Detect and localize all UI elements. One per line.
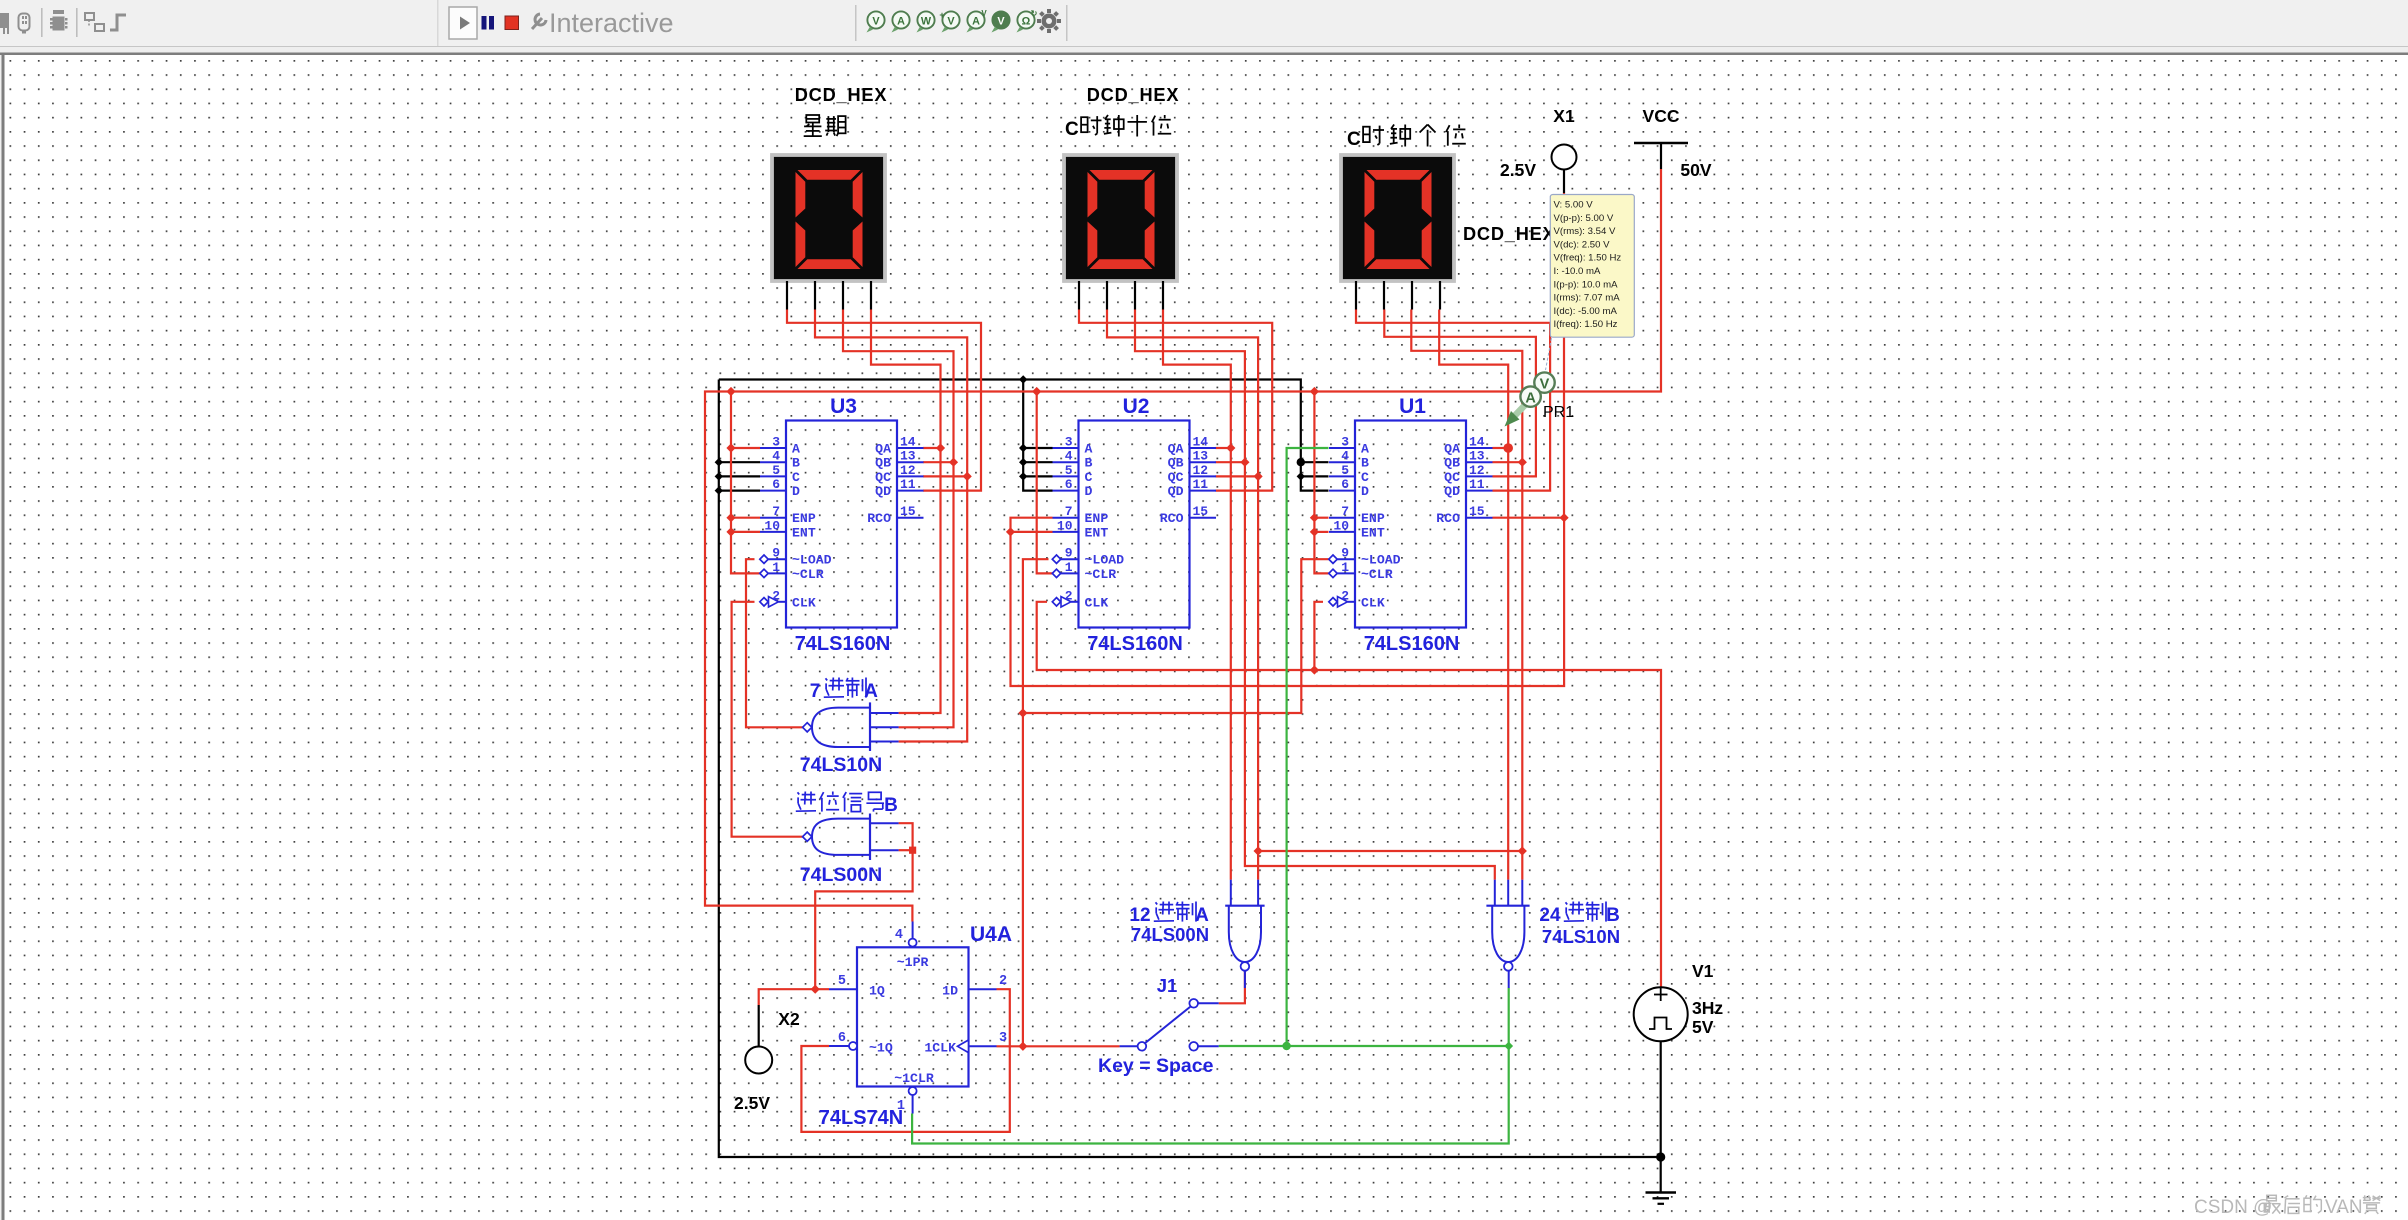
toolbar separator: [855, 5, 857, 41]
canvas left border: [2, 55, 5, 1220]
junction GND V1: [1656, 1152, 1665, 1161]
svg-text:CLK: CLK: [1085, 595, 1109, 610]
svg-text:~1Q: ~1Q: [869, 1041, 893, 1056]
svg-text:D: D: [792, 484, 800, 499]
wire U3 QB net (display1 pin3, 7进制A in2): [843, 310, 954, 728]
svg-text:U2: U2: [1123, 395, 1150, 418]
toolbar probe icons: [867, 9, 1038, 33]
svg-text:CLK: CLK: [792, 595, 816, 610]
svg-text:C: C: [792, 470, 800, 485]
label 24进制B: [1539, 902, 1619, 927]
wire U2 QC to 24进制B in3 link: [1260, 850, 1523, 852]
NAND gate 进位信号B 74LS00N: [803, 814, 899, 861]
wire U1 QD to display3 pin1: [1356, 310, 1550, 491]
X2 probe stub: [758, 1005, 760, 1046]
svg-text:Interactive: Interactive: [549, 8, 674, 38]
wire clock rail V1 to U2 CLK: [1037, 602, 1661, 988]
svg-text:12: 12: [1469, 463, 1485, 478]
svg-text:V(p-p): 5.00 V: V(p-p): 5.00 V: [1554, 213, 1614, 224]
svg-text:X2: X2: [778, 1009, 800, 1029]
junction U1 QA (probe point): [1503, 443, 1513, 453]
svg-text:6: 6: [772, 477, 780, 492]
svg-text:12: 12: [1129, 905, 1150, 926]
counter U1 74LS160N: [1329, 395, 1493, 655]
svg-text:14: 14: [1469, 435, 1485, 450]
wire U2 VCC branch to ~CLR: [1037, 392, 1053, 574]
toolbar right separator: [1066, 5, 1068, 41]
wire U3 CLK from NAND 进位信号B output: [732, 602, 803, 837]
svg-text:2: 2: [1341, 588, 1349, 603]
wire GND U2 branch: [1023, 380, 1052, 491]
svg-text:B: B: [1085, 456, 1093, 471]
junction U1 ENT: [1310, 527, 1319, 536]
7-segment display U7 (C时钟个位): [1341, 155, 1454, 281]
label Key = Space: [1098, 1055, 1214, 1077]
svg-text:12: 12: [1193, 463, 1209, 478]
svg-text:C: C: [1347, 129, 1361, 150]
svg-text:A: A: [1361, 442, 1369, 457]
svg-text:B: B: [1606, 905, 1620, 926]
label DCD_HEX display1: [795, 85, 888, 105]
svg-text:VAN: VAN: [2325, 1197, 2363, 1218]
label DCD_HEX display2: [1087, 85, 1180, 105]
svg-text:DCD_HEX: DCD_HEX: [1463, 224, 1556, 244]
svg-text:V: V: [1540, 377, 1550, 393]
label 50V: [1680, 160, 1711, 180]
label V1: [1692, 961, 1714, 981]
wire U3 QD to display1 pin1: [787, 310, 981, 491]
junction U2 QC link: [1254, 846, 1263, 855]
svg-text:ENT: ENT: [792, 525, 816, 540]
svg-text:6: 6: [838, 1031, 846, 1046]
junction U3 QB: [949, 458, 958, 467]
svg-text:15: 15: [1193, 504, 1209, 519]
svg-text:RCO: RCO: [867, 511, 891, 526]
VCC symbol: [1634, 143, 1688, 169]
svg-text:A: A: [1085, 442, 1093, 457]
svg-text:4: 4: [1341, 449, 1349, 464]
wire J1 out to U1 A: [1287, 448, 1329, 1046]
svg-text:QA: QA: [1168, 442, 1184, 457]
label 星期 display1: [804, 115, 846, 136]
svg-text:14: 14: [900, 435, 916, 450]
junction U3 ENT: [726, 527, 735, 536]
junction VCC rail U2: [1032, 387, 1041, 396]
wire U3 ~LOAD to NAND 7进制A output: [746, 559, 803, 727]
junction GND U3 D: [715, 486, 723, 494]
wire 进位信号B inputs tie to U4A 1Q: [815, 823, 912, 989]
probe X2 (lamp): [745, 1047, 772, 1074]
svg-text:W: W: [921, 15, 932, 27]
source V1 3Hz 5V clock: [1634, 987, 1688, 1041]
label C时钟个位 display3: [1347, 125, 1466, 151]
svg-text:3: 3: [999, 1031, 1007, 1046]
display 3 pins: [1356, 281, 1440, 310]
svg-text:2.5V: 2.5V: [1500, 160, 1536, 180]
svg-text:VCC: VCC: [1643, 106, 1680, 126]
wire U1 ENP spur: [1314, 517, 1328, 519]
wire LOAD rail U2 to U1 ~LOAD: [1023, 559, 1329, 713]
wire V1 minus to GND bus and ground: [1660, 1041, 1662, 1192]
junction U3 QA: [936, 443, 945, 452]
svg-text:5V: 5V: [1692, 1017, 1714, 1037]
junction GND U3 C: [715, 472, 723, 480]
wire U2 QC net (display2 pin2, 12进制A in2): [1107, 310, 1258, 880]
svg-text:~LOAD: ~LOAD: [1361, 553, 1401, 568]
svg-text:5: 5: [1341, 463, 1349, 478]
junction U3 QC: [963, 472, 972, 481]
probe PR1 readout box: [1550, 195, 1634, 338]
svg-text:ENP: ENP: [1085, 511, 1109, 526]
svg-text:10: 10: [1057, 518, 1073, 533]
svg-text:QA: QA: [875, 442, 891, 457]
wire U1 CLK drop: [1314, 602, 1323, 670]
svg-text:7: 7: [810, 681, 821, 702]
wire U3 ENP spur: [731, 517, 760, 519]
wire U3 QC net (display1 pin2, 7进制A in3): [815, 310, 967, 742]
toolbar wrench icon: [532, 14, 546, 29]
svg-text:B: B: [1361, 456, 1369, 471]
junction U3 A: [726, 443, 735, 452]
label 5V: [1692, 1017, 1714, 1037]
svg-text:A: A: [792, 442, 800, 457]
svg-text:QC: QC: [1444, 470, 1460, 485]
wire U4A 1D to ~1Q loop: [801, 989, 1009, 1132]
label 74LS00N (gate B): [800, 864, 882, 886]
wire 24进制B output stub: [1508, 971, 1510, 988]
svg-text:B: B: [884, 795, 898, 816]
svg-text:11: 11: [1469, 477, 1485, 492]
svg-text:B: B: [792, 456, 800, 471]
wire GND frame left+bottom: [719, 380, 1661, 1158]
svg-text:74LS160N: 74LS160N: [1087, 633, 1183, 655]
wire U2 ~LOAD drop to J1 line: [1023, 559, 1049, 1046]
wire GND U3 D spur: [719, 490, 760, 492]
svg-text:6: 6: [1065, 477, 1073, 492]
svg-text:A: A: [972, 15, 980, 27]
svg-text:3: 3: [1341, 435, 1349, 450]
junction U2 QA: [1226, 443, 1235, 452]
svg-text:2: 2: [1065, 588, 1073, 603]
svg-text:24: 24: [1539, 905, 1561, 926]
svg-text:11: 11: [1193, 477, 1209, 492]
svg-text:Key = Space: Key = Space: [1098, 1055, 1214, 1077]
svg-text:V: V: [947, 15, 955, 27]
wire 24进制B output to U4A ~1CLR: [912, 988, 1509, 1144]
ground symbol: [1646, 1193, 1677, 1204]
svg-text:~CLR: ~CLR: [1361, 567, 1393, 582]
counter U2 74LS160N: [1052, 395, 1216, 655]
svg-text:3Hz: 3Hz: [1692, 998, 1723, 1018]
svg-text:D: D: [1085, 484, 1093, 499]
toolbar stop button: [505, 16, 519, 30]
junction GND bus U2: [1019, 375, 1027, 383]
junction U2 ENT: [1006, 527, 1015, 536]
svg-text:10: 10: [764, 518, 780, 533]
junction U1 QB: [1518, 458, 1527, 467]
svg-text:1: 1: [1341, 560, 1349, 575]
svg-text:9: 9: [1341, 546, 1349, 561]
svg-text:74LS74N: 74LS74N: [819, 1107, 904, 1129]
svg-text:DCD_HEX: DCD_HEX: [795, 85, 888, 105]
svg-text:2.5V: 2.5V: [734, 1093, 770, 1113]
left toolbar icons: [0, 8, 126, 37]
svg-text:C: C: [1361, 470, 1369, 485]
junction green U1 A: [1282, 1042, 1290, 1050]
svg-text:74LS160N: 74LS160N: [1364, 633, 1460, 655]
label VCC: [1643, 106, 1680, 126]
wire carry U1 RCO to U2 ENP/ENT: [1011, 518, 1565, 686]
svg-text:ENP: ENP: [1361, 511, 1385, 526]
svg-text:QA: QA: [1444, 442, 1460, 457]
wire GND U1 B spur: [1301, 461, 1329, 463]
label 74LS00N (12进制): [1131, 924, 1209, 945]
svg-text:V(dc): 2.50 V: V(dc): 2.50 V: [1554, 239, 1611, 250]
label 74LS10N (24进制): [1542, 926, 1620, 947]
svg-text:RCO: RCO: [1436, 511, 1460, 526]
wire U1 QB net (display3 pin3, 24进制B in3): [1411, 310, 1522, 880]
toolbar Interactive label: [549, 8, 674, 38]
flip-flop U4A 74LS74N: [829, 922, 1007, 1115]
junction GND U2 B: [1019, 458, 1027, 466]
svg-text:1D: 1D: [942, 984, 958, 999]
svg-text:U3: U3: [830, 395, 857, 418]
wire U1 VCC branch (ENP,ENT,~CLR): [1314, 392, 1328, 574]
svg-text:1: 1: [772, 560, 780, 575]
label C时钟十位 display2: [1065, 115, 1171, 140]
svg-text:QD: QD: [1444, 484, 1460, 499]
svg-text:15: 15: [900, 504, 916, 519]
svg-text:1CLK: 1CLK: [924, 1041, 956, 1056]
svg-text:12: 12: [900, 463, 916, 478]
toolbar gear icon: [1037, 9, 1061, 33]
svg-text:2: 2: [772, 588, 780, 603]
svg-text:QC: QC: [1168, 470, 1184, 485]
svg-text:74LS00N: 74LS00N: [1131, 924, 1209, 945]
wire U1 ENT spur: [1314, 531, 1328, 533]
svg-text:V: V: [872, 15, 880, 27]
svg-text:~1PR: ~1PR: [897, 955, 929, 970]
wire J1 throw to 24进制B output: [1219, 1045, 1509, 1047]
label X2: [778, 1009, 800, 1029]
svg-text:10: 10: [1333, 518, 1349, 533]
svg-text:A: A: [897, 15, 905, 27]
wire U2 ENT spur: [1011, 531, 1053, 533]
toolbar pause button: [482, 16, 495, 30]
svg-text:4: 4: [895, 928, 903, 943]
NAND gate 24进制B 74LS10N: [1486, 880, 1529, 971]
svg-text:15: 15: [1469, 504, 1485, 519]
wire U1 QC to display3 pin2: [1384, 310, 1536, 477]
svg-text:13: 13: [1469, 449, 1485, 464]
wire U2 QA net (display2 pin4, 12进制A in1): [1163, 310, 1231, 880]
svg-text:ENT: ENT: [1085, 525, 1109, 540]
toolbar play button: [437, 0, 477, 46]
7-segment display U5 (星期): [772, 155, 885, 281]
svg-text:2: 2: [999, 974, 1007, 989]
svg-text:PR1: PR1: [1543, 404, 1574, 421]
label U4A: [970, 923, 1012, 946]
label 2.5V (X2): [734, 1093, 770, 1113]
svg-text:7: 7: [1065, 504, 1073, 519]
svg-text:X1: X1: [1553, 106, 1575, 126]
watermark CSDN: [2194, 1195, 2381, 1218]
svg-text:CLK: CLK: [1361, 595, 1385, 610]
svg-text:4: 4: [772, 449, 780, 464]
junction GND U2 C: [1019, 472, 1027, 480]
label 2.5V (X1): [1500, 160, 1536, 180]
X1 probe stub: [1563, 170, 1565, 194]
svg-text:C: C: [1065, 119, 1079, 140]
svg-text:I(freq): 1.50 Hz: I(freq): 1.50 Hz: [1554, 319, 1618, 330]
svg-text:A: A: [864, 681, 878, 702]
toolbar background: [0, 0, 2408, 55]
svg-text:A: A: [1525, 391, 1536, 407]
label 12进制A: [1129, 902, 1209, 927]
svg-text:V(freq): 1.50 Hz: V(freq): 1.50 Hz: [1554, 253, 1622, 264]
label 74LS10N (gate A): [800, 754, 882, 776]
junction GND U2 A: [1019, 444, 1027, 452]
junction green 24进制B: [1504, 1042, 1513, 1051]
svg-text:13: 13: [900, 449, 916, 464]
display 1 pins: [787, 281, 871, 310]
counter U3 74LS160N: [760, 395, 924, 655]
wire 12进制A output to J1 common: [1219, 971, 1245, 1004]
junction U1 RCO: [1560, 513, 1569, 522]
wire U2 QD to display2 pin1: [1079, 310, 1272, 491]
junction J1 line tap: [1018, 1042, 1027, 1051]
junction LOAD rail U2: [1018, 708, 1027, 717]
wire X1 to U1 RCO: [1563, 193, 1565, 518]
junction U3 ENP: [726, 513, 735, 522]
svg-text:74LS00N: 74LS00N: [800, 864, 882, 886]
svg-text:V: V: [997, 15, 1005, 27]
svg-text:QD: QD: [1168, 484, 1184, 499]
wire U3 A spur: [731, 447, 760, 449]
svg-text:DCD_HEX: DCD_HEX: [1087, 85, 1180, 105]
svg-text:QD: QD: [875, 484, 891, 499]
junction VCC rail U1: [1310, 387, 1319, 396]
svg-text:74LS10N: 74LS10N: [1542, 926, 1620, 947]
svg-text:14: 14: [1193, 435, 1209, 450]
svg-text:U1: U1: [1399, 395, 1426, 418]
wire GND U2 B spur: [1023, 461, 1052, 463]
label PR1: [1543, 404, 1574, 421]
wire U2 QB net (display2 pin3, 24进制B in1): [1135, 310, 1495, 880]
label 3Hz: [1692, 998, 1723, 1018]
svg-text:RCO: RCO: [1160, 511, 1184, 526]
svg-text:D: D: [1361, 484, 1369, 499]
display 2 pins: [1079, 281, 1163, 310]
label X1: [1553, 106, 1575, 126]
label 进位信号B: [796, 792, 898, 817]
svg-text:1Q: 1Q: [869, 984, 885, 999]
wire VCC rail to 74LS74N ~1PR: [705, 169, 1661, 922]
svg-text:1: 1: [1065, 560, 1073, 575]
wire U3 QA net (display1 pin4, 7进制A in1): [871, 310, 941, 714]
svg-text:ENT: ENT: [1361, 525, 1385, 540]
svg-text:I: -10.0 mA: I: -10.0 mA: [1554, 266, 1602, 277]
svg-text:7: 7: [772, 504, 780, 519]
wire GND U3 B spur: [719, 461, 760, 463]
svg-text:V(rms): 3.54 V: V(rms): 3.54 V: [1554, 226, 1616, 237]
junction U2 QC: [1254, 472, 1263, 481]
svg-text:CSDN @: CSDN @: [2194, 1197, 2272, 1218]
svg-text:V: 5.00 V: V: 5.00 V: [1554, 200, 1594, 211]
svg-text:I(rms): 7.07 mA: I(rms): 7.07 mA: [1554, 293, 1621, 304]
svg-text:3: 3: [1065, 435, 1073, 450]
svg-text:~LOAD: ~LOAD: [792, 553, 832, 568]
probe PR1: [1505, 338, 1555, 427]
svg-text:↻: ↻: [1031, 9, 1038, 18]
svg-text:9: 9: [1065, 546, 1073, 561]
wire GND U2 C spur: [1023, 475, 1052, 477]
label 74LS74N: [819, 1107, 904, 1129]
svg-text:7: 7: [1341, 504, 1349, 519]
svg-text:QB: QB: [1168, 456, 1184, 471]
junction VCC rail U3: [726, 387, 735, 396]
junction 1Q tap: [811, 985, 820, 994]
wire GND top bus: [719, 380, 1329, 491]
junction GND U1 C: [1297, 472, 1305, 480]
svg-text:I(p-p): 10.0 mA: I(p-p): 10.0 mA: [1554, 279, 1619, 290]
svg-text:QC: QC: [875, 470, 891, 485]
svg-text:QB: QB: [1444, 456, 1460, 471]
svg-text:ENP: ENP: [792, 511, 816, 526]
svg-text:9: 9: [772, 546, 780, 561]
svg-text:A: A: [1195, 905, 1209, 926]
wire U3 VCC branch (A,ENP,ENT,~CLR): [731, 392, 760, 574]
label 7进制A: [810, 678, 878, 703]
svg-text:3: 3: [772, 435, 780, 450]
svg-text:I(dc): -5.00 mA: I(dc): -5.00 mA: [1554, 306, 1618, 317]
probe X1 (lamp): [1552, 145, 1577, 170]
junction 进位信号B in tie: [909, 847, 916, 854]
wire GND U2 A spur: [1023, 447, 1052, 449]
7-segment display U6 (C时钟十位): [1064, 155, 1177, 281]
junction GND U3 B: [715, 458, 723, 466]
svg-text:50V: 50V: [1680, 160, 1711, 180]
svg-text:~LOAD: ~LOAD: [1085, 553, 1125, 568]
wire U4A 1CLK to J1 pole: [997, 1045, 1120, 1047]
svg-text:Ω: Ω: [1022, 15, 1031, 27]
wire GND U3 C spur: [719, 475, 760, 477]
svg-text:C: C: [1085, 470, 1093, 485]
svg-text:~CLR: ~CLR: [1085, 567, 1117, 582]
wire U1 QA net (display3 pin4, 24进制B in2, PR1): [1439, 310, 1508, 880]
wire U3 ENT spur: [731, 531, 760, 533]
NAND gate 7进制A 74LS10N: [803, 702, 899, 751]
svg-text:5: 5: [772, 463, 780, 478]
junction U1 ENP: [1310, 513, 1319, 522]
svg-text:74LS160N: 74LS160N: [795, 633, 891, 655]
NAND gate 12进制A 74LS00N: [1225, 880, 1264, 971]
switch J1: [1120, 999, 1219, 1051]
label J1: [1157, 975, 1178, 996]
svg-text:13: 13: [1193, 449, 1209, 464]
svg-text:4: 4: [1065, 449, 1073, 464]
junction GND U1 B: [1297, 458, 1305, 466]
svg-text:+: +: [939, 10, 944, 20]
wire 12进制A output stub: [1244, 971, 1246, 988]
svg-text:5: 5: [1065, 463, 1073, 478]
svg-text:~CLR: ~CLR: [792, 567, 824, 582]
junction U1 QB link: [1518, 846, 1527, 855]
label DCD_HEX display3 (behind probe box): [1463, 224, 1556, 244]
wire U4A 1Q to X2: [759, 989, 829, 1005]
svg-text:5: 5: [838, 974, 846, 989]
svg-text:QB: QB: [875, 456, 891, 471]
